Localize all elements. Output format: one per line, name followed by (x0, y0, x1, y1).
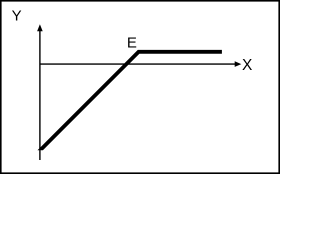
X axis arrowhead (235, 61, 242, 67)
svg-text:X: X (242, 57, 253, 74)
svg-text:E: E (127, 34, 137, 51)
X axis wire (40, 63, 237, 65)
Y axis wire (39, 30, 41, 161)
border frame (1, 1, 279, 173)
svg-text:Y: Y (12, 7, 22, 24)
curve: diagonal then saturation line (38, 50, 222, 150)
Y axis arrowhead (37, 24, 43, 31)
